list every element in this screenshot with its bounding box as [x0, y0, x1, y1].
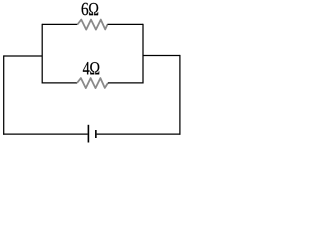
- wire: inner-right vertical (junction node B, joins both branches): [142, 24, 144, 84]
- wire: outer-right vertical: [179, 55, 181, 135]
- label 4Ω (value of resistor R2): digit 4: [83, 62, 90, 74]
- label 6Ω (value of resistor R1): ohm sign: [89, 3, 98, 15]
- resistor R2 (4Ω zigzag): [77, 78, 108, 88]
- wire: top branch, left segment (node A to R1): [42, 23, 77, 25]
- wire: bottom branch, right segment (R2 to node B): [108, 82, 143, 84]
- label 6Ω (value of resistor R1): digit 6: [82, 3, 89, 15]
- wire: right stub from node B to outer loop: [143, 55, 180, 57]
- label 4Ω (value of resistor R2): ohm sign: [90, 62, 99, 74]
- resistor R1 (6Ω zigzag): [77, 20, 107, 30]
- wire: left stub from outer loop to node A: [4, 55, 43, 57]
- wire: bottom left segment (to battery positive plate): [3, 133, 88, 135]
- wire: top branch, right segment (R1 to node B): [107, 23, 143, 25]
- wire: outer-left vertical: [3, 55, 5, 134]
- wire: bottom right segment (from battery negative plate): [97, 133, 181, 135]
- battery V1: long (positive) plate: [87, 125, 89, 143]
- wire: bottom branch, left segment (node A to R2): [42, 82, 77, 84]
- battery V1: short (negative) plate: [95, 130, 97, 138]
- wire: inner-left vertical (junction node A, joins both branches): [41, 24, 43, 84]
